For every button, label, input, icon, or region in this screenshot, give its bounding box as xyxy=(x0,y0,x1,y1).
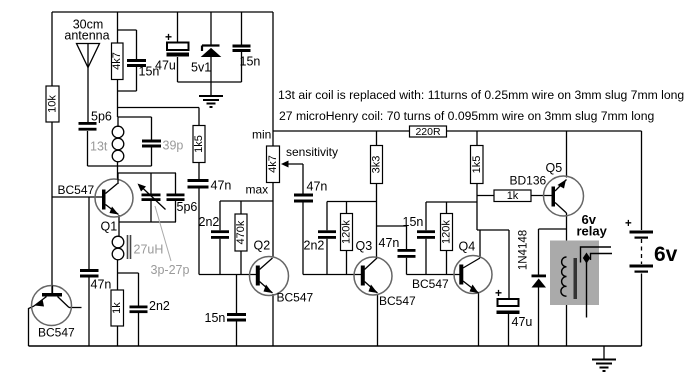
svg-text:6v: 6v xyxy=(654,243,678,266)
svg-text:39p: 39p xyxy=(163,139,184,153)
transistor Q3 BC547 xyxy=(354,257,392,295)
capacitor 47u electrolytic q4 xyxy=(495,286,520,314)
capacitor 2n2 q2 xyxy=(211,230,229,239)
svg-text:BC547: BC547 xyxy=(412,277,449,291)
leader line 3p-27p xyxy=(155,206,171,261)
wire top 47u stems xyxy=(177,12,179,82)
wire Q3 collector 3k3 xyxy=(376,131,378,257)
capacitor 47n sensitivity xyxy=(294,194,313,203)
svg-text:3k3: 3k3 xyxy=(371,156,383,174)
wire Q3 base xyxy=(303,274,361,276)
svg-text:1k5: 1k5 xyxy=(193,135,205,153)
wire tank bottom xyxy=(88,146,152,181)
variable capacitor 3p-27p trimmer xyxy=(138,184,166,210)
svg-text:max: max xyxy=(246,183,269,197)
svg-text:1N4148: 1N4148 xyxy=(518,230,530,270)
wire battery top xyxy=(641,131,643,230)
core bars 27uH xyxy=(128,235,131,259)
wire Q5 emitter up xyxy=(566,131,568,178)
wire Q2 emitter xyxy=(272,294,274,346)
wire branch 47u xyxy=(477,230,509,299)
svg-text:+: + xyxy=(495,286,502,300)
svg-text:15n: 15n xyxy=(403,215,424,229)
svg-text:47n: 47n xyxy=(307,180,328,194)
svg-text:2n2: 2n2 xyxy=(149,299,170,313)
wire 1k to Q5 xyxy=(477,195,552,197)
transistor Q0 BC547 bottom-left xyxy=(32,286,72,326)
wire lower rail left xyxy=(273,130,410,132)
svg-text:47u: 47u xyxy=(512,315,533,329)
relay armature xyxy=(583,253,590,318)
wire top rail xyxy=(52,11,273,13)
transistor Q2 BC547 xyxy=(250,257,289,296)
wire 47u bottom xyxy=(508,314,510,346)
wire Q4 base xyxy=(407,274,460,276)
svg-text:1k: 1k xyxy=(507,190,519,202)
relay box xyxy=(550,241,599,306)
svg-text:1k5: 1k5 xyxy=(471,156,483,174)
wire Q3 top xyxy=(327,201,377,203)
svg-text:220R: 220R xyxy=(415,126,441,138)
wire Q3 2n2 xyxy=(326,202,328,275)
wire to 1k5 xyxy=(118,108,200,126)
wire trimmer top xyxy=(118,173,176,194)
svg-text:Q4: Q4 xyxy=(459,240,476,254)
transistor Q5 BD136 xyxy=(544,176,584,216)
zener diode 5v1 xyxy=(202,46,220,57)
svg-text:120k: 120k xyxy=(341,220,353,244)
wire left vertical lower xyxy=(51,122,53,293)
capacitor 15n top-right xyxy=(233,45,251,53)
svg-text:BC547: BC547 xyxy=(379,294,416,308)
wire top 5v1 stems xyxy=(210,12,212,82)
capacitor 39p xyxy=(142,140,161,148)
svg-text:Q5: Q5 xyxy=(546,161,563,175)
battery 6v xyxy=(625,218,653,273)
svg-text:antenna: antenna xyxy=(64,29,109,43)
wire Q0 emitter to rail xyxy=(29,306,35,346)
wire bottom rail xyxy=(29,345,642,347)
capacitor 2n2 bottom-left xyxy=(130,306,148,314)
wire left vertical upper xyxy=(51,12,53,86)
resistor 120k q3 xyxy=(341,214,353,251)
capacitor 47n coupling q4 xyxy=(398,249,416,258)
wire Q1 base xyxy=(52,196,103,198)
wire Q0 base stub xyxy=(69,307,82,309)
wire Q2 470k stubs xyxy=(240,201,242,275)
svg-text:Q3: Q3 xyxy=(356,239,373,253)
svg-text:47n: 47n xyxy=(379,236,400,250)
svg-text:Q2: Q2 xyxy=(254,239,271,253)
inductor 13t coil xyxy=(112,126,124,162)
svg-text:5p6: 5p6 xyxy=(91,110,112,124)
svg-text:1k: 1k xyxy=(111,302,123,314)
capacitor 15n mid-bottom xyxy=(227,313,246,322)
ground right xyxy=(592,360,616,372)
svg-text:5p6: 5p6 xyxy=(177,200,198,214)
svg-text:13t air coil is replaced with:: 13t air coil is replaced with: 11turns o… xyxy=(278,88,684,102)
svg-text:4k7: 4k7 xyxy=(111,52,123,70)
wire relay coil line xyxy=(566,241,568,347)
label 6v relay xyxy=(577,212,608,239)
svg-text:15n: 15n xyxy=(205,311,226,325)
capacitor 5p6 parallel xyxy=(167,194,185,202)
resistor 1k5 left xyxy=(193,126,205,163)
svg-text:2n2: 2n2 xyxy=(304,239,325,253)
wire 47n coupling xyxy=(377,226,407,275)
wire top ground stem xyxy=(210,82,212,96)
svg-text:BC547: BC547 xyxy=(58,183,95,197)
resistor 1k xyxy=(494,190,531,202)
svg-text:47n: 47n xyxy=(211,179,232,193)
svg-text:relay: relay xyxy=(577,224,608,239)
wire Q4 15n xyxy=(425,202,427,275)
wire ground right stem xyxy=(603,346,605,359)
transistor Q4 BC547 xyxy=(454,256,492,294)
wire sensitivity xyxy=(284,164,303,275)
label 30cm antenna xyxy=(64,18,109,43)
wire 1k5 to 47n to base xyxy=(198,163,200,275)
relay coil xyxy=(561,257,567,296)
svg-text:BC547: BC547 xyxy=(38,326,75,340)
resistor 220R xyxy=(410,126,447,138)
svg-text:BD136: BD136 xyxy=(510,174,547,188)
diode 1N4148 xyxy=(532,275,547,288)
svg-text:13t: 13t xyxy=(90,140,108,154)
wire 27uH to 1k and 2n2 xyxy=(118,260,139,346)
wire Q2 2n2 xyxy=(219,201,221,275)
wire diode bottom xyxy=(538,288,540,347)
ground top xyxy=(199,96,223,107)
svg-text:4k7: 4k7 xyxy=(267,155,279,173)
svg-text:sensitivity: sensitivity xyxy=(286,145,338,159)
svg-text:min: min xyxy=(252,128,271,142)
svg-text:2n2: 2n2 xyxy=(199,215,220,229)
wire Q3 emitter xyxy=(377,295,379,347)
relay contact 2 xyxy=(591,254,613,261)
wire trimmer bottom / Q1 emitter xyxy=(119,201,176,237)
svg-text:BC547: BC547 xyxy=(277,291,314,305)
wire antenna to 5p6 xyxy=(87,44,90,167)
wire Q4 collector xyxy=(479,230,481,258)
wire Q3 120k stubs xyxy=(346,202,348,275)
wire Q4 top xyxy=(426,201,477,203)
svg-text:3p-27p: 3p-27p xyxy=(151,263,190,277)
resistor 120k q4 xyxy=(441,214,453,251)
wire long vertical to lower rail xyxy=(272,12,274,146)
wire Q4 120k stubs xyxy=(446,202,448,275)
svg-text:27 microHenry coil: 70 turns o: 27 microHenry coil: 70 turns of 0.095mm … xyxy=(279,109,654,123)
svg-text:Q1: Q1 xyxy=(101,220,118,234)
capacitor 47u electrolytic top xyxy=(165,30,189,57)
capacitor 5p6 antenna xyxy=(79,122,97,131)
wire Q2 top xyxy=(220,200,273,202)
antenna xyxy=(77,44,100,68)
wire 47n base cap xyxy=(88,197,90,346)
capacitor 2n2 q3 xyxy=(318,230,336,239)
svg-text:5v1: 5v1 xyxy=(191,61,211,75)
svg-text:470k: 470k xyxy=(235,220,247,244)
svg-text:120k: 120k xyxy=(441,220,453,244)
wire top section bottom xyxy=(178,81,242,83)
capacitor 15n top-left xyxy=(127,59,146,67)
svg-text:15n: 15n xyxy=(139,65,160,79)
wire top 15n stems xyxy=(241,12,243,82)
inductor 27uH coil xyxy=(112,236,124,260)
wire tank top xyxy=(118,117,152,140)
relay core xyxy=(574,258,578,299)
svg-text:10k: 10k xyxy=(47,95,59,113)
resistor 3k3 xyxy=(371,146,383,184)
wire pot to Q2 collector xyxy=(272,183,274,257)
resistor 470k xyxy=(235,214,247,251)
capacitor 47n q1 xyxy=(80,269,99,278)
wire 1k5 right xyxy=(476,131,478,230)
wire lower rail right xyxy=(447,130,642,132)
wire 4k7 branch xyxy=(118,12,137,117)
resistor R 10k xyxy=(46,86,59,122)
capacitor 15n q4 xyxy=(417,230,435,239)
svg-text:27uH: 27uH xyxy=(134,243,164,257)
relay contact 1 xyxy=(581,247,612,263)
potentiometer 4k7 sensitivity xyxy=(267,146,289,183)
resistor 1k bottom xyxy=(111,290,124,326)
wire Q2 base xyxy=(199,274,256,276)
wire diode top xyxy=(539,229,567,275)
wire Q4 emitter xyxy=(478,293,480,346)
svg-text:+: + xyxy=(625,218,632,230)
transistor Q1 BC547 xyxy=(95,173,133,217)
resistor 1k5 right xyxy=(471,146,484,184)
wire Q5 collector down xyxy=(566,213,568,241)
svg-text:47n: 47n xyxy=(91,278,112,292)
wire mid 15n xyxy=(236,275,238,347)
wire battery bottom xyxy=(641,274,643,347)
svg-text:15n: 15n xyxy=(240,55,261,69)
resistor 4k7 top xyxy=(111,43,123,80)
capacitor 47n below 1k5 xyxy=(188,179,209,189)
